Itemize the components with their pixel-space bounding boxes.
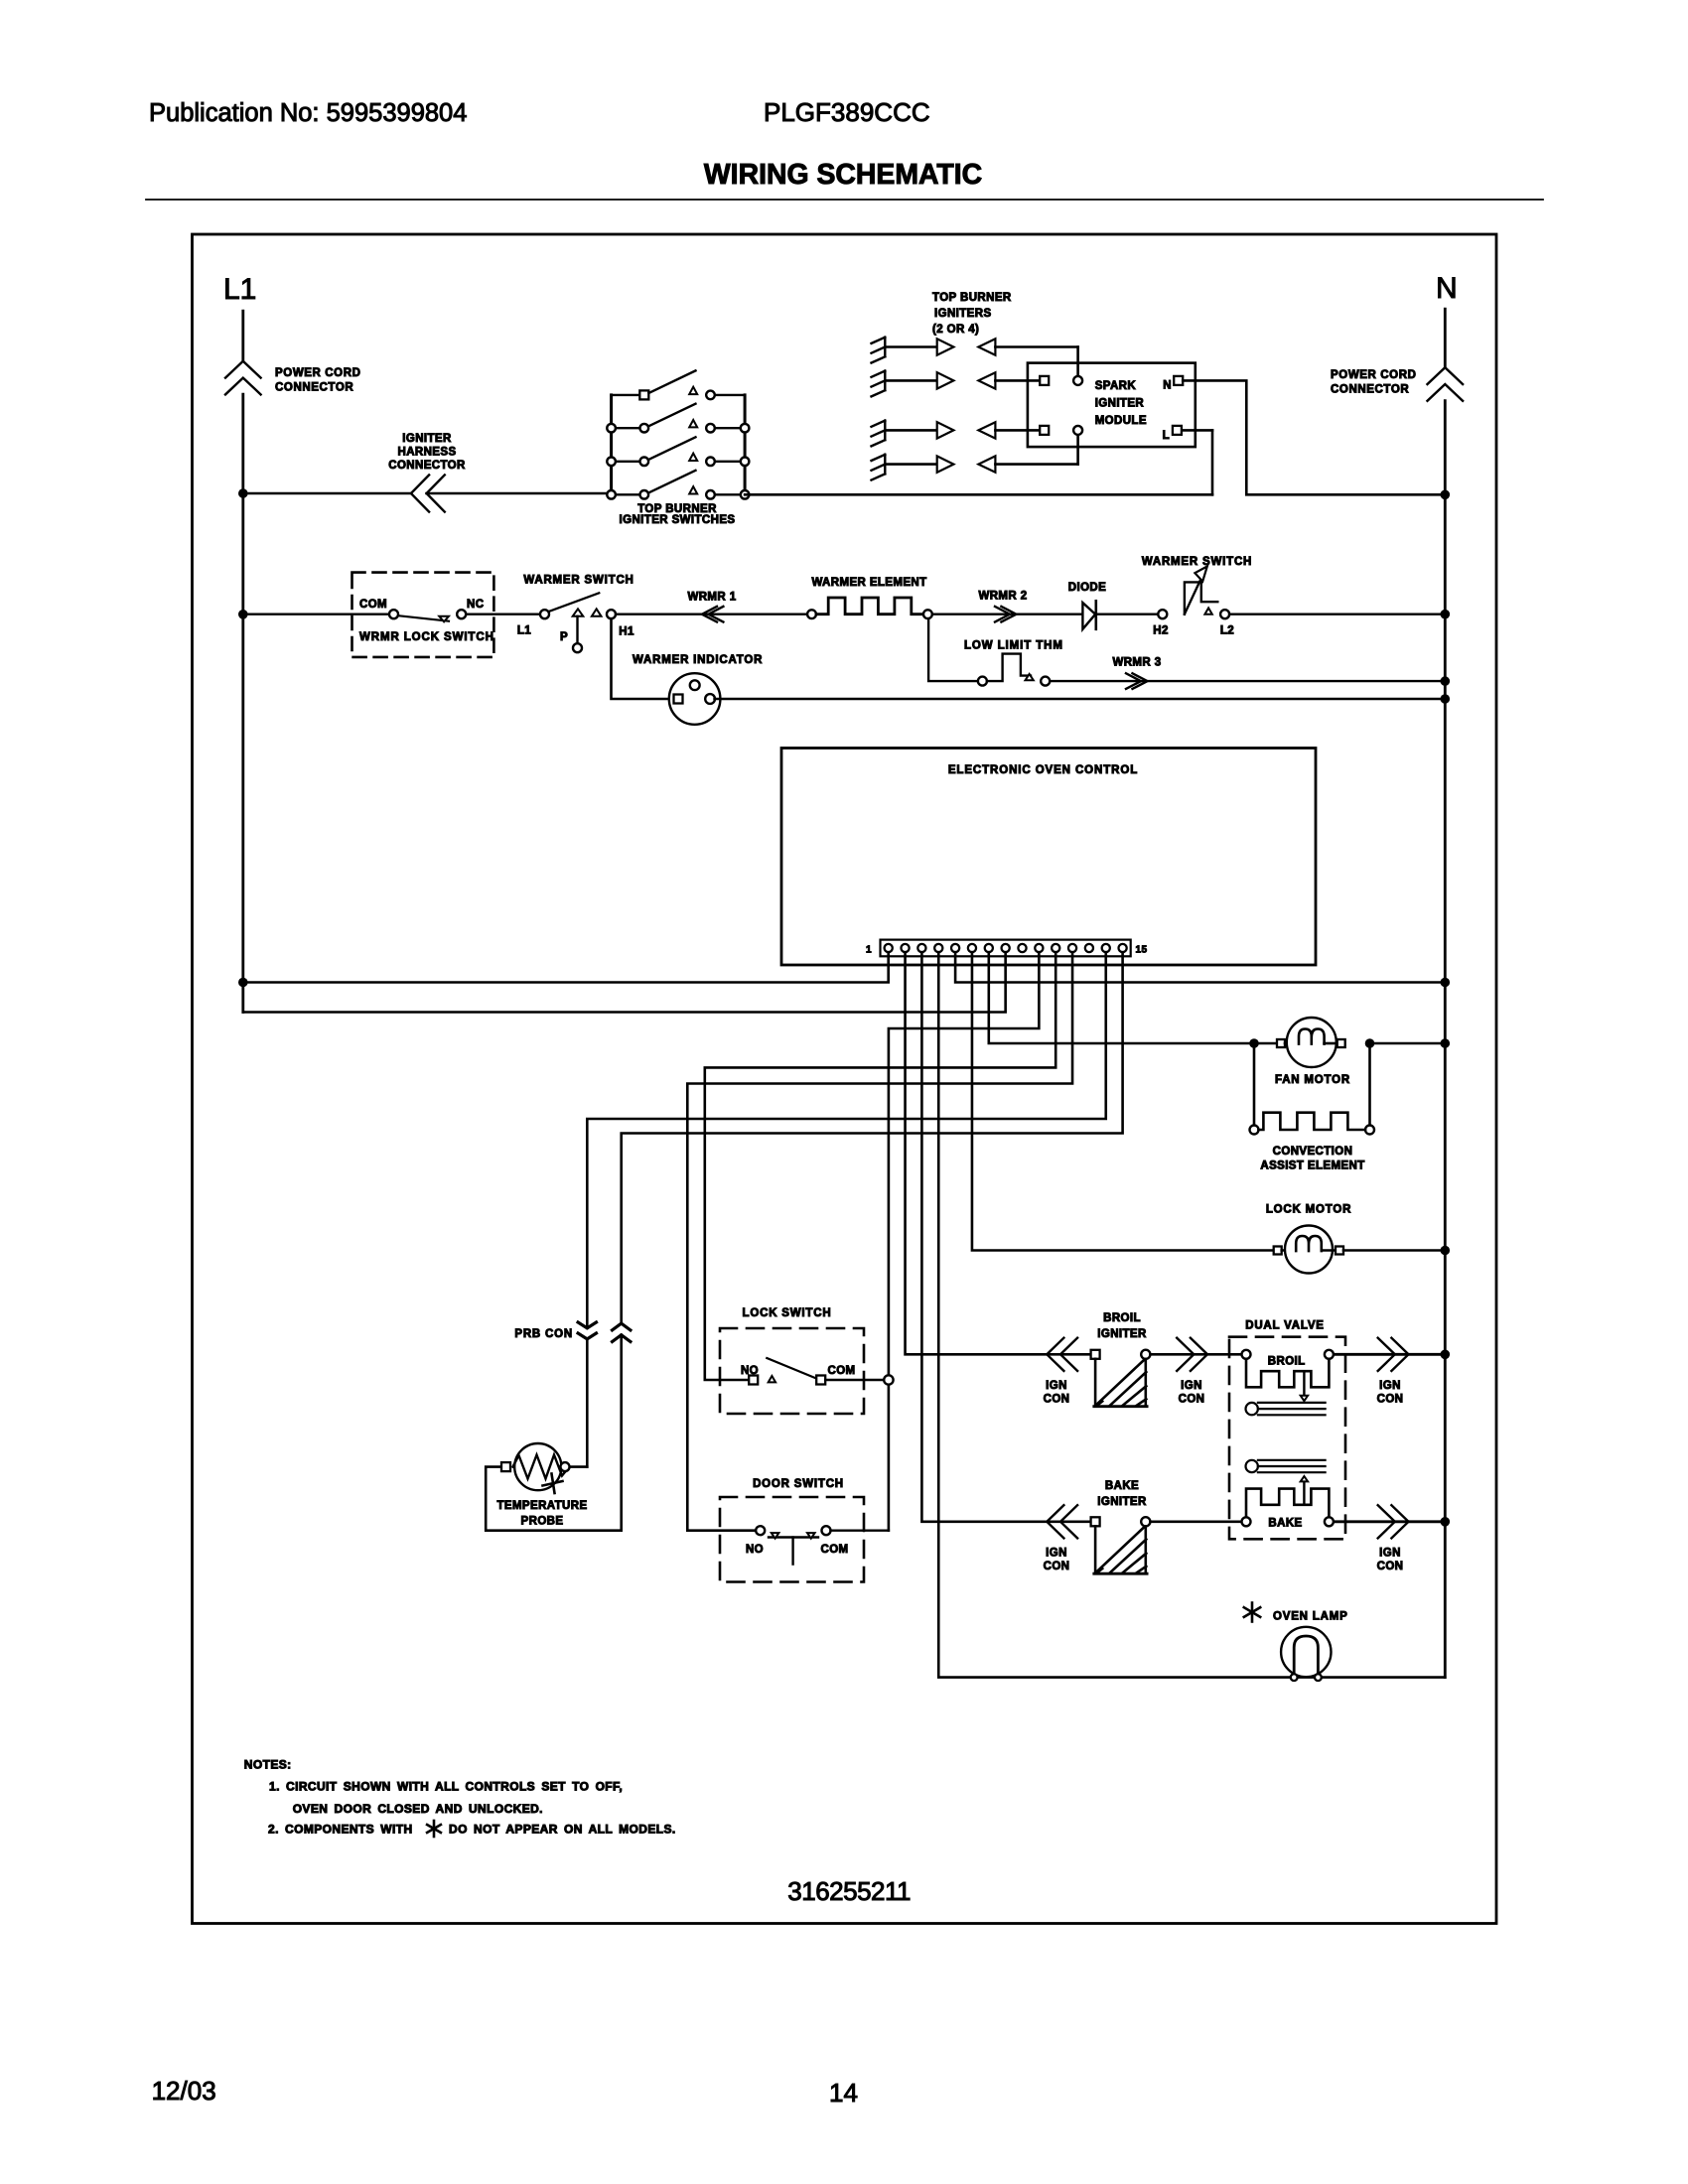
- svg-text:BAKE: BAKE: [1268, 1518, 1302, 1530]
- svg-text:CONNECTOR: CONNECTOR: [388, 460, 466, 472]
- top burner igniter 3 wire and arrows: [885, 429, 936, 432]
- svg-text:NO: NO: [741, 1365, 759, 1377]
- wire terminal 5 to N rail: [955, 952, 1445, 982]
- wire H1 to warmer element: [616, 614, 807, 615]
- lock motor: [1274, 1247, 1282, 1255]
- top burner igniter 4 wire and arrows: [885, 463, 936, 466]
- svg-text:OVEN LAMP: OVEN LAMP: [1273, 1611, 1348, 1623]
- dual valve broil solenoid coil: [1246, 1359, 1329, 1388]
- wire spark module N to N rail: [1183, 380, 1445, 494]
- connector IGN CON chevrons (bake right): [1378, 1505, 1395, 1538]
- wrmr lock switch dashed box: [352, 573, 494, 657]
- EOC terminal pin 9: [1018, 944, 1026, 952]
- svg-text:POWER CORD: POWER CORD: [275, 367, 361, 379]
- dual valve plunger tube (bake): [1246, 1460, 1258, 1472]
- svg-text:IGN: IGN: [1181, 1380, 1202, 1392]
- warmer switch H1 contact triangle: [592, 609, 602, 616]
- wire dual valve bake to N rail: [1334, 1520, 1445, 1523]
- wire terminal 6 to lock motor row: [972, 952, 1273, 1250]
- igniter switch row 1: [612, 394, 640, 396]
- wire dual valve broil to N rail: [1334, 1353, 1445, 1356]
- svg-text:N: N: [1436, 272, 1458, 305]
- connector IGN CON chevrons (bake left): [1047, 1505, 1063, 1538]
- low limit thm left terminal: [978, 677, 987, 686]
- wire L1 to warmer lock switch COM: [243, 614, 389, 615]
- notes asterisk: [433, 1821, 436, 1837]
- svg-text:LOCK SWITCH: LOCK SWITCH: [743, 1307, 832, 1319]
- low limit thm contact triangle: [1026, 674, 1034, 680]
- svg-text:NO: NO: [746, 1544, 764, 1556]
- connector WRMR 1 chevrons: [702, 607, 717, 622]
- junction dot L1 x EOC terminal-1 wire: [238, 978, 248, 988]
- EOC terminal pin 4: [934, 944, 942, 952]
- low limit thm right terminal: [1041, 677, 1050, 686]
- svg-text:WRMR 1: WRMR 1: [687, 592, 736, 604]
- lock switch contact triangle: [769, 1376, 775, 1382]
- svg-text:SPARK: SPARK: [1095, 380, 1137, 392]
- temperature probe sensor: [514, 1443, 561, 1490]
- EOC terminal pin 15: [1119, 944, 1127, 952]
- svg-text:IGNITER: IGNITER: [1097, 1328, 1147, 1340]
- svg-text:COM: COM: [820, 1544, 848, 1556]
- door switch COM terminal: [822, 1526, 831, 1535]
- svg-text:WRMR 2: WRMR 2: [978, 591, 1027, 603]
- wire lock switch COM to connector circle: [825, 1379, 884, 1381]
- svg-text:WARMER ELEMENT: WARMER ELEMENT: [811, 577, 926, 589]
- temperature probe right pin: [561, 1462, 570, 1471]
- svg-text:H1: H1: [619, 626, 634, 638]
- svg-text:PLGF389CCC: PLGF389CCC: [764, 97, 930, 127]
- wire bake igniter to dual valve: [1150, 1521, 1241, 1524]
- svg-text:BAKE: BAKE: [1105, 1480, 1139, 1492]
- EOC terminal pin 7: [985, 944, 993, 952]
- igniter switch row 2 left bus junction circle: [607, 424, 616, 433]
- svg-text:1. CIRCUIT SHOWN WITH ALL CON: 1. CIRCUIT SHOWN WITH ALL CONTROLS SET T…: [269, 1780, 623, 1794]
- wire broil igniter to dual valve: [1150, 1353, 1241, 1356]
- svg-text:WARMER SWITCH: WARMER SWITCH: [1142, 556, 1252, 568]
- wire terminal 8 to L1 rail bottom: [243, 952, 1006, 1012]
- junction dot N rail x low limit wire: [1441, 676, 1451, 686]
- power cord connector (left) chevrons: [225, 361, 261, 378]
- wire terminal 1 to L1 rail: [243, 952, 889, 982]
- warmer switch L1 terminal: [540, 610, 549, 618]
- svg-text:DO NOT APPEAR ON ALL MODELS.: DO NOT APPEAR ON ALL MODELS.: [449, 1823, 676, 1837]
- EOC terminal pin 13: [1085, 944, 1093, 952]
- svg-text:H2: H2: [1153, 625, 1169, 637]
- warmer switch P contact triangle: [573, 609, 584, 616]
- svg-text:WARMER INDICATOR: WARMER INDICATOR: [633, 654, 763, 666]
- schematic frame border: [193, 234, 1497, 1924]
- wire terminal 12 to door switch NO: [687, 952, 1072, 1530]
- top burner igniter 2 wire and arrows: [885, 379, 936, 382]
- junction dot N rail x fan row: [1441, 1038, 1451, 1048]
- warmer switch arm: [550, 593, 600, 611]
- fan motor: [1277, 1039, 1285, 1047]
- svg-text:ELECTRONIC OVEN CONTROL: ELECTRONIC OVEN CONTROL: [948, 764, 1138, 776]
- igniter harness connector chevrons: [411, 475, 429, 511]
- lock switch COM terminal: [816, 1376, 825, 1385]
- warmer lock switch contact triangle: [439, 616, 449, 622]
- wire switch bank to spark module L: [745, 493, 1212, 496]
- dual valve bake actuator arrow: [1303, 1481, 1305, 1504]
- junction dot N rail x bake row: [1441, 1517, 1451, 1527]
- svg-text:L1: L1: [517, 625, 531, 637]
- low limit thm bridge: [987, 654, 1031, 682]
- igniter switch row 3 right bus junction circle: [741, 458, 750, 467]
- bake igniter: [1091, 1517, 1100, 1526]
- wire lock motor to N rail: [1343, 1249, 1445, 1252]
- igniter switch row 4 left bus junction circle: [607, 490, 616, 499]
- svg-text:OVEN DOOR CLOSED AND UNLOCKED.: OVEN DOOR CLOSED AND UNLOCKED.: [293, 1802, 543, 1816]
- svg-text:COM: COM: [827, 1365, 855, 1377]
- svg-text:1: 1: [866, 945, 872, 956]
- connector IGN CON chevrons (broil left): [1047, 1338, 1063, 1371]
- svg-text:WARMER SWITCH: WARMER SWITCH: [523, 575, 633, 587]
- svg-text:DOOR SWITCH: DOOR SWITCH: [753, 1478, 844, 1490]
- wire L1 rail upper segment: [241, 311, 244, 361]
- junction dot N rail x lock motor row: [1441, 1246, 1451, 1256]
- top burner igniter 4 electrode symbol: [884, 455, 886, 475]
- top burner igniter switches right bus: [744, 395, 747, 494]
- svg-text:NOTES:: NOTES:: [244, 1758, 292, 1772]
- junction dot N rail x spark module: [1441, 490, 1451, 500]
- connector WRMR 3 chevrons: [1126, 673, 1141, 689]
- broil igniter: [1091, 1350, 1100, 1359]
- svg-text:Publication No: 5995399804: Publication No: 5995399804: [149, 99, 467, 127]
- svg-text:14: 14: [829, 2078, 858, 2108]
- wire L1 to igniter harness connector: [243, 492, 411, 495]
- warmer switch L2 terminal: [1220, 610, 1229, 618]
- junction dot N rail x indicator wire: [1441, 694, 1451, 704]
- svg-text:WRMR LOCK SWITCH: WRMR LOCK SWITCH: [359, 631, 494, 643]
- svg-text:2. COMPONENTS WITH: 2. COMPONENTS WITH: [268, 1823, 413, 1837]
- connector IGN CON chevrons (broil right): [1378, 1338, 1395, 1371]
- wire terminal 14 to probe connector: [587, 952, 1105, 1328]
- wire terminal 4 to oven lamp row: [938, 952, 1445, 1677]
- svg-text:IGN: IGN: [1379, 1380, 1401, 1392]
- EOC terminal pin 12: [1068, 944, 1076, 952]
- svg-text:IGN: IGN: [1379, 1548, 1401, 1560]
- warmer lock switch COM terminal: [389, 610, 398, 618]
- top burner igniter 1 electrode symbol: [884, 338, 886, 357]
- svg-text:IGNITER: IGNITER: [1095, 398, 1145, 410]
- wire terminal 11 to lock switch NO: [705, 952, 1055, 1380]
- svg-text:PRB CON: PRB CON: [514, 1328, 573, 1340]
- svg-text:IGNITERS: IGNITERS: [934, 308, 992, 320]
- svg-text:P: P: [560, 631, 568, 643]
- igniter switch row 2: [612, 427, 640, 429]
- header rule: [146, 199, 1543, 201]
- wire N rail upper segment: [1444, 309, 1447, 367]
- door switch dashed box: [720, 1497, 864, 1582]
- warmer indicator pilot lamp: [669, 673, 721, 725]
- warmer switch (right) L2 contact triangle: [1204, 608, 1211, 614]
- svg-text:15: 15: [1136, 945, 1148, 956]
- dual valve plunger tube (broil): [1246, 1403, 1258, 1415]
- warmer switch (right) thermal element: [1185, 582, 1217, 614]
- lock switch NO terminal: [749, 1376, 758, 1385]
- wire terminal 15 to probe connector: [622, 952, 1123, 1323]
- oven lamp bulb: [1281, 1627, 1331, 1677]
- wire terminal 3 to bake igniter row: [921, 952, 1089, 1522]
- svg-text:COM: COM: [359, 599, 387, 611]
- spark igniter module pin circles: [1073, 376, 1082, 385]
- junction dot N rail x warmer row: [1441, 610, 1451, 619]
- wire L1 rail main segment: [241, 394, 244, 1012]
- svg-text:CON: CON: [1044, 1561, 1070, 1572]
- svg-text:(2 OR 4): (2 OR 4): [932, 324, 979, 336]
- svg-text:12/03: 12/03: [152, 2076, 216, 2106]
- top burner igniter 2 electrode symbol: [884, 371, 886, 391]
- junction dot fan row right: [1365, 1038, 1375, 1048]
- wire terminal 2 to broil igniter row: [906, 952, 1090, 1354]
- warmer switch H2 terminal: [1158, 610, 1167, 618]
- igniter switch row 3: [612, 461, 640, 463]
- svg-text:N: N: [1163, 380, 1172, 392]
- junction dot L1 x warmer wire: [238, 610, 248, 619]
- svg-text:CONNECTOR: CONNECTOR: [275, 382, 353, 394]
- wire warmer indicator to N rail: [715, 698, 1446, 701]
- spark igniter module pin squares (left): [1040, 376, 1049, 385]
- wire low limit to N rail: [1050, 680, 1445, 682]
- dual valve broil terminals: [1242, 1350, 1251, 1359]
- junction dot L1 x igniter wire: [238, 488, 248, 498]
- svg-text:MODULE: MODULE: [1095, 415, 1147, 427]
- svg-text:CON: CON: [1377, 1394, 1404, 1406]
- top burner igniter switches left bus: [610, 395, 613, 494]
- EOC terminal pin 3: [917, 944, 925, 952]
- svg-text:CONNECTOR: CONNECTOR: [1331, 384, 1409, 396]
- wire warmer element to low limit thm: [928, 618, 978, 681]
- dual valve broil actuator arrow: [1303, 1371, 1305, 1396]
- svg-text:NC: NC: [467, 599, 484, 611]
- door switch contact triangles: [772, 1533, 779, 1539]
- spark igniter module box: [1028, 363, 1196, 448]
- igniter switch row 4 right bus junction circle: [741, 490, 750, 499]
- EOC terminal pin 14: [1102, 944, 1110, 952]
- svg-text:L2: L2: [1220, 625, 1234, 637]
- warmer lock switch NC terminal: [457, 610, 466, 618]
- connector IGN CON chevrons (broil mid): [1177, 1338, 1194, 1371]
- warmer lock switch arm: [398, 615, 449, 621]
- convection element right lead: [1368, 1047, 1371, 1126]
- igniter switch row 2 right bus junction circle: [741, 424, 750, 433]
- convection assist element coil: [1259, 1113, 1366, 1130]
- svg-text:CON: CON: [1377, 1561, 1404, 1572]
- warmer element resistive coil: [816, 598, 923, 614]
- svg-text:WRMR 3: WRMR 3: [1112, 657, 1161, 669]
- svg-text:TEMPERATURE: TEMPERATURE: [496, 1500, 587, 1512]
- svg-text:ASSIST ELEMENT: ASSIST ELEMENT: [1260, 1160, 1364, 1172]
- lock switch dashed box: [720, 1328, 864, 1414]
- connector PRB CON down chevrons: [578, 1322, 596, 1328]
- svg-text:CON: CON: [1044, 1394, 1070, 1406]
- EOC terminal strip: [881, 940, 1131, 957]
- temperature probe left pin: [501, 1462, 510, 1471]
- lock switch arm: [767, 1358, 816, 1379]
- dual valve bake solenoid coil: [1246, 1489, 1329, 1518]
- warmer element left terminal: [807, 610, 816, 618]
- EOC terminal pin 11: [1052, 944, 1059, 952]
- wire door switch COM to terminal-10 riser: [831, 1529, 889, 1531]
- igniter switch row 4: [612, 493, 640, 495]
- wire NC to warmer switch L1: [466, 614, 540, 615]
- EOC terminal pin 8: [1002, 944, 1010, 952]
- dual valve dashed box: [1229, 1337, 1345, 1540]
- svg-text:IGNITER: IGNITER: [1097, 1496, 1147, 1508]
- svg-text:POWER CORD: POWER CORD: [1331, 369, 1417, 381]
- svg-text:DUAL VALVE: DUAL VALVE: [1245, 1320, 1325, 1332]
- svg-text:316255211: 316255211: [787, 1876, 911, 1906]
- junction dot N rail x broil row: [1441, 1350, 1451, 1360]
- svg-text:IGNITER: IGNITER: [402, 433, 452, 445]
- svg-text:CONVECTION: CONVECTION: [1273, 1146, 1353, 1158]
- door switch NO terminal: [756, 1526, 765, 1535]
- oven lamp asterisk: [1251, 1603, 1254, 1622]
- wire warmer element to diode row: [932, 614, 1158, 615]
- junction dot fan row left: [1249, 1038, 1259, 1048]
- EOC terminal pin 2: [901, 944, 909, 952]
- svg-text:BROIL: BROIL: [1268, 1356, 1306, 1368]
- wire L2 to N rail: [1229, 614, 1445, 615]
- EOC terminal pin 10: [1035, 944, 1043, 952]
- svg-text:L: L: [1163, 430, 1170, 442]
- lock switch COM connector circle: [884, 1375, 893, 1384]
- wire terminal 7 to fan motor row: [989, 952, 1277, 1043]
- top burner igniter 3 electrode symbol: [884, 421, 886, 441]
- svg-text:PROBE: PROBE: [521, 1516, 564, 1528]
- wire terminal 10 to lock/door switch COM: [889, 952, 1039, 1530]
- dual valve bake terminals: [1242, 1517, 1251, 1526]
- connector PRB CON up chevrons: [613, 1323, 631, 1330]
- diode: [1082, 603, 1095, 629]
- svg-text:IGN: IGN: [1046, 1380, 1067, 1392]
- warmer switch P pin: [576, 616, 578, 643]
- warmer switch (right) arm with arrow: [1185, 571, 1205, 614]
- svg-text:FAN MOTOR: FAN MOTOR: [1275, 1074, 1350, 1086]
- svg-text:LOW LIMIT THM: LOW LIMIT THM: [964, 640, 1063, 652]
- warmer element right terminal: [923, 610, 932, 618]
- svg-text:DIODE: DIODE: [1068, 582, 1106, 594]
- connector WRMR 2 chevrons: [995, 607, 1010, 622]
- svg-text:LOCK MOTOR: LOCK MOTOR: [1266, 1204, 1351, 1216]
- svg-text:L1: L1: [223, 273, 256, 306]
- electronic oven control box: [781, 749, 1316, 966]
- wire H1 down to warmer indicator: [612, 618, 674, 699]
- top burner igniter 1 wire and arrows: [885, 345, 936, 348]
- svg-text:WIRING SCHEMATIC: WIRING SCHEMATIC: [704, 159, 982, 191]
- svg-text:IGN: IGN: [1046, 1548, 1067, 1560]
- convection element left lead: [1253, 1047, 1256, 1126]
- wire harness connector to switch bank: [427, 492, 612, 495]
- junction dot N rail x terminal 5 wire: [1441, 978, 1451, 988]
- svg-text:BROIL: BROIL: [1103, 1312, 1141, 1324]
- svg-text:HARNESS: HARNESS: [397, 447, 456, 459]
- svg-text:IGNITER SWITCHES: IGNITER SWITCHES: [620, 514, 736, 526]
- EOC terminal pin 5: [951, 944, 959, 952]
- svg-text:TOP BURNER: TOP BURNER: [932, 292, 1012, 304]
- svg-text:CON: CON: [1179, 1394, 1205, 1406]
- warmer switch H1 terminal: [607, 610, 616, 618]
- door switch plunger: [769, 1536, 818, 1538]
- power cord connector (right) chevrons: [1428, 367, 1464, 384]
- wire fan motor to N rail: [1373, 1042, 1445, 1045]
- igniter switch row 3 left bus junction circle: [607, 458, 616, 467]
- EOC terminal pin 6: [968, 944, 976, 952]
- EOC terminal pin 1: [885, 944, 893, 952]
- wire N rail main segment: [1444, 401, 1447, 1678]
